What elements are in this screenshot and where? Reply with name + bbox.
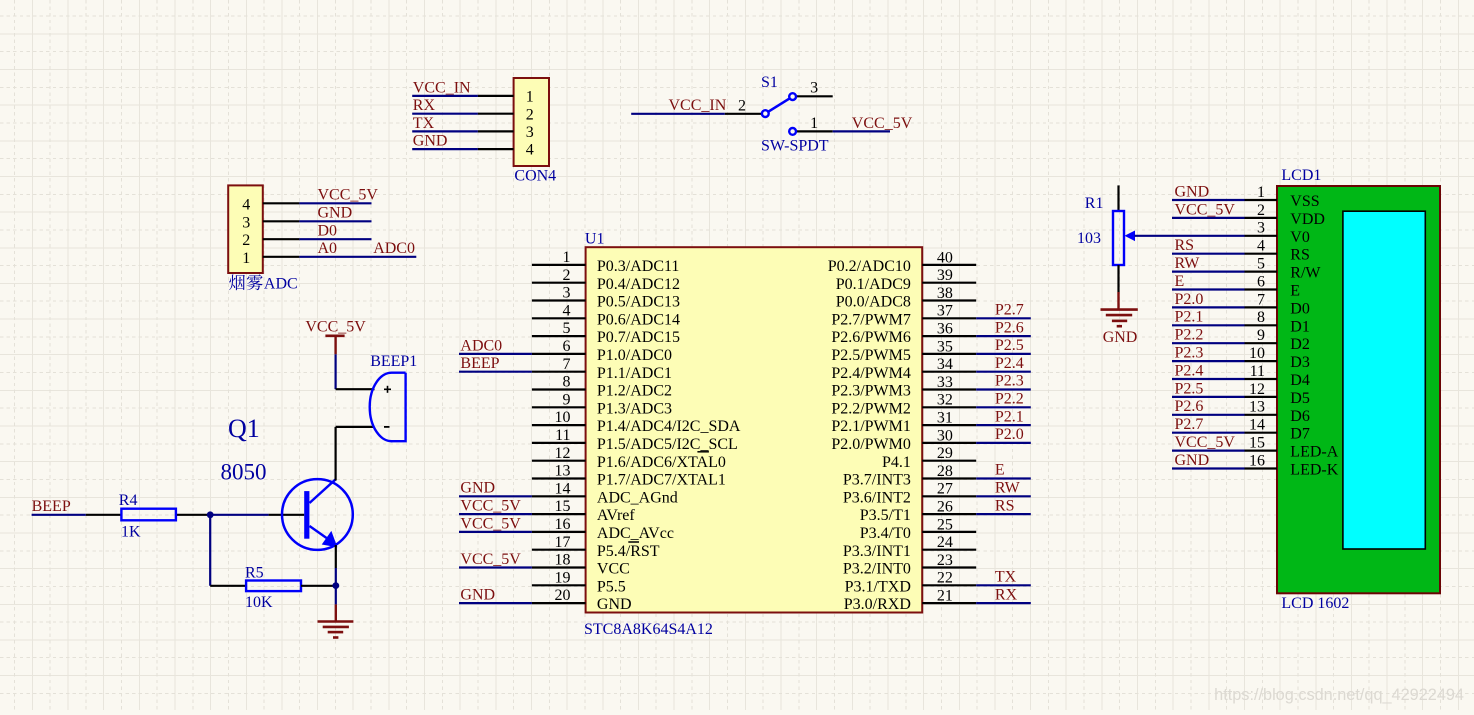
wire R1 wiper to LCD V0 [1135,235,1245,237]
wire Q1 emitter down [335,545,337,568]
svg-text:10: 10 [1249,345,1265,362]
LCD1 pin 14 [1245,417,1310,443]
U1 pin 5 [532,320,680,346]
LCD1 pin 1 [1245,184,1320,210]
wire net P2.6 at U1 pin 36 [976,335,1031,337]
svg-text:VCC_5V: VCC_5V [1175,201,1236,218]
wire net BEEP at U1 pin 7 [459,371,532,373]
svg-text:GND: GND [1175,452,1210,469]
svg-text:D7: D7 [1290,426,1310,443]
resistor R5 [246,581,336,592]
svg-text:P2.6/PWM6: P2.6/PWM6 [831,329,911,346]
svg-text:10: 10 [555,409,571,426]
wire net VCC_5V at LCD1 pin 2 [1172,217,1245,219]
LCD1 pin 6 [1245,273,1301,299]
svg-text:26: 26 [937,499,953,516]
connector 烟雾ADC body [228,185,263,273]
LCD1 pin 11 [1245,363,1310,389]
CON4 pin 1 [478,89,534,106]
svg-text:E: E [995,462,1005,479]
svg-text:GND: GND [460,587,495,604]
svg-text:12: 12 [1249,381,1265,398]
svg-text:ADC0: ADC0 [460,337,502,354]
U1 pin 10 [532,409,741,435]
svg-text:33: 33 [937,374,953,391]
svg-text:P0.2/ADC10: P0.2/ADC10 [828,258,911,275]
svg-text:25: 25 [937,516,953,533]
svg-text:10K: 10K [245,594,273,611]
svg-text:P3.1/TXD: P3.1/TXD [845,578,911,595]
svg-text:16: 16 [555,516,571,533]
svg-text:STC8A8K64S4A12: STC8A8K64S4A12 [584,621,713,638]
U1 pin 8 [532,374,672,400]
svg-text:P0.1/ADC9: P0.1/ADC9 [836,276,911,293]
wire net E at LCD1 pin 6 [1172,288,1245,290]
U1 pin 16 [532,516,674,542]
svg-text:1: 1 [563,249,571,266]
connector CON4 body [514,78,549,166]
svg-text:P2.0: P2.0 [1175,291,1204,308]
U1 pin 4 [532,302,680,328]
svg-text:P0.5/ADC13: P0.5/ADC13 [597,294,680,311]
svg-text:D3: D3 [1290,354,1310,371]
wire Q1 collector up [335,427,337,481]
wire net GND at LCD1 pin 16 [1172,467,1245,469]
svg-text:P1.3/ADC3: P1.3/ADC3 [597,400,672,417]
U1 pin 38 [836,285,976,311]
svg-text:D6: D6 [1290,408,1310,425]
svg-text:R/W: R/W [1290,265,1321,282]
U1 pin 39 [836,267,976,293]
svg-text:P3.6/INT2: P3.6/INT2 [843,489,911,506]
S1 pin 3 [796,80,832,97]
U1 pin 29 [882,445,976,471]
svg-text:6: 6 [1257,273,1265,290]
U1 pin 25 [860,516,976,542]
svg-text:29: 29 [937,445,953,462]
svg-text:D2: D2 [1290,336,1310,353]
svg-text:14: 14 [555,480,571,497]
svg-text:21: 21 [937,588,953,605]
U1 pin 21 [844,588,976,614]
U1 pin 22 [845,570,977,596]
svg-text:GND: GND [460,480,495,497]
svg-text:P1.2/ADC2: P1.2/ADC2 [597,383,672,400]
svg-text:8050: 8050 [221,460,267,485]
wire net P2.2 at U1 pin 32 [976,406,1031,408]
overline RST R [628,541,639,543]
junction node emitter/R5 [332,582,339,589]
svg-text:11: 11 [1250,363,1265,380]
svg-text:E: E [1290,283,1300,300]
LCD1 display window [1343,211,1425,549]
wire net P2.1 at LCD1 pin 8 [1172,324,1245,326]
LCD1 pin 16 [1245,452,1339,478]
svg-text:3: 3 [563,285,571,302]
U1 pin 2 [532,267,680,293]
svg-text:37: 37 [937,303,953,320]
ground symbol (emitter) [318,604,354,637]
wire net ADC0 at U1 pin 6 [459,353,532,355]
svg-text:R1: R1 [1085,195,1104,212]
wire net P2.7 at U1 pin 37 [976,317,1031,319]
svg-text:LCD1: LCD1 [1281,167,1321,184]
svg-text:P0.7/ADC15: P0.7/ADC15 [597,329,680,346]
LCD1 pin 3 [1245,220,1310,246]
svg-text:ADC0: ADC0 [373,240,415,257]
svg-text:SW-SPDT: SW-SPDT [761,138,829,155]
svg-text:P2.6: P2.6 [995,319,1024,336]
烟雾ADC pin 1 [242,250,299,267]
wire base node down [209,515,211,586]
svg-text:2: 2 [738,97,746,114]
svg-text:5: 5 [563,320,571,337]
IC U1 body [586,247,923,612]
svg-text:17: 17 [555,534,571,551]
svg-text:BEEP: BEEP [460,355,499,372]
烟雾ADC pin 2 [242,232,299,249]
U1 pin 13 [532,463,726,489]
wire net VCC_IN to S1 pin 2 [631,113,725,115]
U1 pin 34 [831,356,976,382]
CON4 pin 2 [478,106,534,123]
transistor Q1 pin base [269,514,305,516]
wire net P2.2 at LCD1 pin 9 [1172,342,1245,344]
U1 pin 23 [843,552,976,578]
svg-text:P4.1: P4.1 [882,454,911,471]
U1 pin 36 [831,321,976,347]
transistor Q1 [282,479,353,550]
switch S1 symbol [762,93,796,135]
svg-text:P0.6/ADC14: P0.6/ADC14 [597,311,680,328]
svg-text:D0: D0 [318,223,338,240]
designator 烟雾ADC [229,274,297,292]
svg-text:AVref: AVref [597,507,636,524]
svg-text:VCC_5V: VCC_5V [318,187,379,204]
U1 pin 20 [532,587,632,613]
svg-text:40: 40 [937,249,953,266]
svg-text:1: 1 [526,89,534,106]
U1 pin 3 [532,285,680,311]
svg-text:RW: RW [1175,255,1201,272]
U1 pin 32 [831,392,976,418]
U1 pin 28 [843,463,976,489]
svg-text:19: 19 [555,569,571,586]
svg-text:VCC_IN: VCC_IN [413,79,471,96]
svg-text:RW: RW [995,480,1021,497]
LCD1 pin 9 [1245,327,1310,353]
svg-text:4: 4 [1257,238,1265,255]
wire net P2.3 at U1 pin 33 [976,388,1031,390]
resistor R4 [86,509,207,521]
U1 pin 19 [532,569,626,595]
svg-text:VSS: VSS [1290,193,1319,210]
svg-text:P2.0: P2.0 [995,426,1024,443]
U1 pin 40 [828,249,976,275]
svg-text:4: 4 [242,196,250,213]
svg-text:P0.0/ADC8: P0.0/ADC8 [836,294,911,311]
svg-text:VCC_5V: VCC_5V [852,115,913,132]
overline XTAL0 A [697,451,709,453]
ground symbol GND (R1) [1101,292,1138,346]
LCD1 pin 12 [1245,381,1310,407]
buzzer BEEP1 [370,373,406,442]
svg-text:RS: RS [1175,237,1195,254]
svg-text:R5: R5 [245,565,264,582]
svg-text:P2.2: P2.2 [995,391,1024,408]
LCD1 pin 7 [1245,291,1310,317]
svg-text:P1.0/ADC0: P1.0/ADC0 [597,347,672,364]
svg-text:GND: GND [597,596,632,613]
svg-text:P2.7/PWM7: P2.7/PWM7 [831,311,911,328]
svg-text:VCC_5V: VCC_5V [1175,434,1236,451]
svg-text:3: 3 [242,214,250,231]
wire net VCC_5V from 烟雾ADC [299,202,371,204]
svg-text:GND: GND [318,205,353,222]
svg-text:13: 13 [1249,399,1265,416]
svg-text:P1.4/ADC4/I2C_SDA: P1.4/ADC4/I2C_SDA [597,418,741,435]
svg-text:P2.6: P2.6 [1175,398,1204,415]
svg-text:7: 7 [1257,291,1265,308]
S1 pin 2 [725,97,762,114]
wire net P2.3 at LCD1 pin 10 [1172,360,1245,362]
svg-text:18: 18 [555,552,571,569]
svg-text:2: 2 [526,106,534,123]
svg-text:12: 12 [555,445,571,462]
svg-text:CON4: CON4 [514,168,556,185]
svg-text:P2.1/PWM1: P2.1/PWM1 [831,418,911,435]
svg-text:2: 2 [563,267,571,284]
LCD1 pin 13 [1245,399,1310,425]
svg-text:P5.4/RST: P5.4/RST [597,543,660,560]
wire net RW at U1 pin 27 [976,495,1031,497]
svg-text:P2.7: P2.7 [995,302,1024,319]
U1 pin 17 [532,534,660,560]
wire net TX at U1 pin 22 [976,584,1031,586]
svg-text:4: 4 [563,302,571,319]
svg-text:P2.5: P2.5 [995,337,1024,354]
LCD1 body [1277,186,1440,593]
wire R1 bottom [1117,265,1119,292]
svg-text:GND: GND [1103,329,1138,346]
CON4 pin 4 [478,142,534,159]
U1 pin 14 [532,480,678,506]
svg-text:ADC_AGnd: ADC_AGnd [597,489,678,506]
wire R1 top [1117,185,1119,211]
wire net VCC_5V at U1 pin 15 [459,513,532,515]
svg-text:1K: 1K [121,524,141,541]
wire net D0 from 烟雾ADC [299,238,371,240]
U1 pin 1 [532,249,680,275]
wire node to R5 [210,585,246,587]
svg-text:1: 1 [242,250,250,267]
svg-text:P2.3: P2.3 [995,373,1024,390]
svg-text:P2.4: P2.4 [995,355,1024,372]
svg-text:VCC_5V: VCC_5V [305,319,366,336]
wire net GND at LCD1 pin 1 [1172,199,1245,201]
U1 pin 37 [831,303,976,329]
svg-text:P0.4/ADC12: P0.4/ADC12 [597,276,680,293]
wire net GND from 烟雾ADC [299,220,371,222]
svg-text:35: 35 [937,338,953,355]
svg-text:24: 24 [937,534,953,551]
svg-text:TX: TX [413,115,435,132]
wire net P2.4 at LCD1 pin 11 [1172,378,1245,380]
U1 pin 31 [831,410,976,436]
svg-text:https://blog.csdn.net/qq_42922: https://blog.csdn.net/qq_42922494 [1214,686,1464,704]
wire net P2.4 at U1 pin 34 [976,371,1031,373]
svg-text:3: 3 [810,80,818,97]
svg-text:P2.3/PWM3: P2.3/PWM3 [831,383,911,400]
wire net RX at U1 pin 21 [976,602,1031,604]
svg-text:P5.5: P5.5 [597,578,626,595]
wire net A0 from 烟雾ADC [299,256,416,258]
svg-text:RX: RX [995,586,1018,603]
svg-text:D1: D1 [1290,318,1310,335]
svg-text:20: 20 [555,587,571,604]
svg-text:VDD: VDD [1290,211,1325,228]
svg-text:GND: GND [413,133,448,150]
U1 pin 24 [843,534,976,560]
svg-text:22: 22 [937,570,953,587]
svg-text:P3.0/RXD: P3.0/RXD [844,596,911,613]
wire net P2.0 at U1 pin 30 [976,442,1031,444]
svg-text:15: 15 [555,498,571,515]
wire R4 to Q1 base [207,514,269,516]
wire net P2.5 at U1 pin 35 [976,353,1031,355]
wire net RS at LCD1 pin 4 [1172,253,1245,255]
svg-text:P3.4/T0: P3.4/T0 [860,525,911,542]
svg-text:RS: RS [1290,247,1310,264]
svg-text:28: 28 [937,463,953,480]
svg-text:8: 8 [1257,309,1265,326]
烟雾ADC pin 4 [242,196,299,213]
wire net BEEP [32,514,86,516]
svg-text:7: 7 [563,356,571,373]
svg-text:1: 1 [810,115,818,132]
svg-text:VCC_5V: VCC_5V [460,551,521,568]
wire net VCC_5V at U1 pin 16 [459,531,532,533]
junction node base [207,511,214,518]
svg-text:LCD 1602: LCD 1602 [1281,595,1349,612]
svg-text:P2.2: P2.2 [1175,327,1204,344]
U1 pin 30 [831,427,976,453]
svg-text:P1.1/ADC1: P1.1/ADC1 [597,365,672,382]
svg-text:9: 9 [1257,327,1265,344]
svg-text:VCC_5V: VCC_5V [460,498,521,515]
svg-text:E: E [1175,273,1185,290]
CON4 pin 3 [478,124,534,141]
svg-text:P2.3: P2.3 [1175,345,1204,362]
svg-text:2: 2 [242,232,250,249]
svg-text:P2.1: P2.1 [995,408,1024,425]
svg-text:Q1: Q1 [228,414,260,443]
wire net GND at U1 pin 14 [459,495,532,497]
svg-text:36: 36 [937,321,953,338]
svg-text:P2.5/PWM5: P2.5/PWM5 [831,347,911,364]
U1 pin 18 [532,552,630,578]
wire net P2.1 at U1 pin 31 [976,424,1031,426]
wire net P2.0 at LCD1 pin 7 [1172,306,1245,308]
wire net RW at LCD1 pin 5 [1172,271,1245,273]
svg-text:LED-K: LED-K [1290,462,1338,479]
svg-text:P2.5: P2.5 [1175,380,1204,397]
svg-text:GND: GND [1175,183,1210,200]
svg-text:30: 30 [937,427,953,444]
U1 pin 15 [532,498,636,524]
svg-text:P0.3/ADC11: P0.3/ADC11 [597,258,680,275]
wire net TX to CON4 pin 3 [412,130,478,132]
svg-text:39: 39 [937,267,953,284]
svg-text:RX: RX [413,97,436,114]
svg-text:3: 3 [1257,220,1265,237]
svg-text:P1.5/ADC5/I2C_SCL: P1.5/ADC5/I2C_SCL [597,436,738,453]
svg-text:5: 5 [1257,256,1265,273]
svg-text:R4: R4 [119,492,138,509]
U1 pin 9 [532,391,672,417]
LCD1 pin 4 [1245,238,1310,264]
svg-text:4: 4 [526,142,534,159]
svg-text:23: 23 [937,552,953,569]
svg-text:P3.7/INT3: P3.7/INT3 [843,472,911,489]
wire net VCC_5V at S1 pin 1 [833,130,890,132]
svg-text:VCC_5V: VCC_5V [460,515,521,532]
U1 pin 7 [532,356,672,382]
svg-text:P3.5/T1: P3.5/T1 [860,507,911,524]
LCD1 pin 8 [1245,309,1310,335]
svg-text:P2.4/PWM4: P2.4/PWM4 [831,365,911,382]
LCD1 pin 2 [1245,202,1325,228]
LCD1 pin 5 [1245,256,1322,282]
svg-text:LED-A: LED-A [1290,444,1338,461]
svg-text:P3.3/INT1: P3.3/INT1 [843,543,911,560]
LCD1 pin 10 [1245,345,1310,371]
svg-text:32: 32 [937,392,953,409]
svg-text:31: 31 [937,410,953,427]
U1 pin 26 [860,499,976,525]
烟雾ADC pin 3 [242,214,299,231]
wire collector to BEEP1 minus [336,426,375,428]
svg-text:BEEP: BEEP [32,498,71,515]
svg-text:14: 14 [1249,417,1265,434]
svg-text:VCC_IN: VCC_IN [669,97,727,114]
LCD1 pin 15 [1245,435,1339,461]
U1 pin 12 [532,445,726,471]
svg-text:U1: U1 [585,231,605,248]
wire net RS at U1 pin 26 [976,513,1031,515]
svg-text:38: 38 [937,285,953,302]
svg-text:13: 13 [555,463,571,480]
svg-text:D5: D5 [1290,390,1310,407]
svg-text:P3.2/INT0: P3.2/INT0 [843,561,911,578]
wire net P2.7 at LCD1 pin 14 [1172,432,1245,434]
svg-text:P1.7/ADC7/XTAL1: P1.7/ADC7/XTAL1 [597,472,726,489]
S1 pin 1 [797,115,833,132]
svg-text:D0: D0 [1290,300,1310,317]
svg-text:34: 34 [937,356,953,373]
svg-text:6: 6 [563,338,571,355]
svg-text:TX: TX [995,569,1017,586]
wire net P2.5 at LCD1 pin 12 [1172,396,1245,398]
svg-text:9: 9 [563,391,571,408]
U1 pin 33 [831,374,976,400]
svg-text:P2.7: P2.7 [1175,416,1204,433]
svg-text:V0: V0 [1290,229,1310,246]
U1 pin 35 [831,338,976,364]
svg-text:P1.6/ADC6/XTAL0: P1.6/ADC6/XTAL0 [597,454,726,471]
svg-text:P2.0/PWM0: P2.0/PWM0 [831,436,911,453]
svg-text:D4: D4 [1290,372,1310,389]
